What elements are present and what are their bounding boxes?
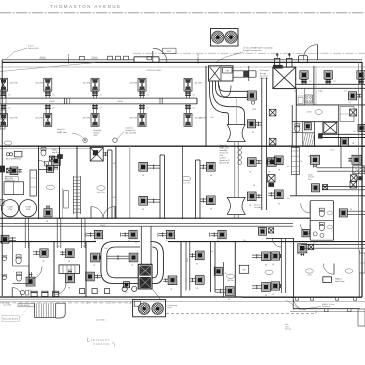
svg-text:250: 250	[294, 91, 297, 93]
corridor north wall	[0, 217, 310, 219]
ahu unit	[138, 264, 152, 289]
hvac1 unit	[47, 156, 61, 172]
corridor diffuser right2	[302, 230, 309, 237]
ceiling diffuser right 1	[300, 71, 312, 85]
svg-text:12x6: 12x6	[210, 117, 214, 119]
svg-text:Heat Pump: Heat Pump	[335, 280, 344, 283]
svg-text:AC Unit W1: AC Unit W1	[220, 162, 230, 165]
main trunk duct	[0, 98, 197, 104]
supply slot diffuser top col1	[0, 78, 8, 98]
entry door arc right	[303, 45, 317, 60]
hvac1 extra units	[45, 155, 63, 167]
toilet right	[295, 124, 300, 132]
lower left duct	[186, 242, 190, 291]
exam vert duct 2	[57, 218, 61, 248]
erv intake hood	[275, 53, 280, 67]
erv supply elbow outer	[216, 81, 248, 97]
sink lower left	[2, 256, 7, 261]
temp note top	[57, 129, 87, 142]
porch door arc	[293, 297, 306, 309]
right diffuser a	[308, 155, 320, 168]
vert duct A	[108, 150, 112, 219]
loop diffuser L2	[86, 272, 101, 281]
street name text	[50, 4, 120, 9]
porch edge	[290, 309, 365, 312]
north wall outer line	[2, 59, 362, 61]
mech diffuser low	[44, 205, 52, 217]
erv return elbow inner	[213, 81, 245, 125]
corridor diffuser 2	[121, 231, 138, 243]
svg-text:400 CFM: 400 CFM	[130, 83, 138, 85]
exam sink south	[12, 288, 29, 297]
air compressor	[6, 151, 22, 160]
svg-text:7x7: 7x7	[135, 243, 138, 245]
gfi label lr	[297, 254, 300, 256]
svg-text:Units: Units	[168, 306, 172, 309]
exam vert duct 3	[81, 218, 85, 248]
right rooms h-duct lower	[322, 187, 365, 190]
supply slot diffuser bottom col3	[91, 104, 99, 126]
south wall left	[0, 297, 242, 299]
svg-text:12x6: 12x6	[112, 163, 116, 165]
hc sinks	[313, 232, 324, 238]
svg-text:Food Area: Food Area	[254, 206, 264, 209]
svg-text:400 CFM: 400 CFM	[195, 83, 203, 85]
svg-text:400 CFM: 400 CFM	[10, 83, 18, 85]
gray partition wall	[129, 146, 131, 218]
svg-text:7x7: 7x7	[93, 240, 96, 242]
svg-text:REF: REF	[243, 269, 246, 271]
toilet room wall	[13, 242, 30, 284]
svg-text:HVAC Unit: HVAC Unit	[57, 131, 67, 134]
connect exhaust note	[113, 127, 137, 143]
sidewalk line 1	[0, 300, 365, 302]
vacuum tanks	[1, 200, 36, 217]
vert duct C	[196, 160, 200, 219]
svg-text:10Ø8: 10Ø8	[252, 109, 256, 111]
entry door swing	[153, 48, 167, 62]
mid diffuser 1	[139, 163, 160, 178]
north sidewalk line	[0, 66, 365, 68]
rooftop condensing units box	[211, 29, 239, 47]
lr closet right	[359, 250, 365, 297]
svg-text:THOMASTON AVENUE: THOMASTON AVENUE	[50, 4, 120, 9]
left edge boxes	[0, 95, 6, 129]
corridor diffuser 1	[86, 231, 103, 243]
svg-text:Unit: Unit	[220, 154, 224, 157]
kitchen wall vertical	[314, 66, 316, 105]
lower mid wall	[181, 238, 294, 297]
right wall	[359, 62, 362, 297]
ceiling diffuser right 3	[357, 71, 365, 85]
stair landing label	[18, 303, 35, 307]
shaft xbox	[324, 122, 337, 133]
svg-text:Exam Office: Exam Office	[182, 182, 190, 184]
supply slot diffuser top col3	[91, 78, 99, 98]
right rooms h-duct upper	[317, 168, 365, 171]
exam vert duct 1	[25, 218, 28, 248]
supply slot diffuser top col4	[138, 78, 146, 98]
exam diffuser 1	[33, 249, 48, 257]
lr diffuser 1	[271, 252, 281, 260]
dark duct bath	[319, 134, 365, 139]
mid oval tags	[97, 176, 191, 194]
kitchen oven symbol	[305, 95, 313, 103]
kitchen counter	[297, 89, 305, 106]
supply slot diffuser bottom col5	[184, 104, 192, 126]
yard dashed line	[166, 309, 316, 314]
svg-text:250: 250	[348, 91, 351, 93]
gfi label	[353, 131, 356, 133]
svg-text:Control: Control	[220, 157, 227, 160]
svg-text:22x10: 22x10	[306, 112, 311, 114]
corridor diffuser right	[259, 227, 274, 235]
right diffuser b	[312, 184, 328, 192]
hvac6 unit rect	[323, 277, 332, 283]
ahu feed duct	[141, 226, 151, 264]
svg-text:12x6: 12x6	[112, 197, 116, 199]
street centerline	[0, 12, 365, 14]
branch diffuser x252 y196	[248, 192, 262, 201]
cfm labels col2	[35, 83, 55, 120]
property dashed line	[133, 52, 365, 54]
erv label text	[260, 70, 269, 80]
corridor diffuser 4	[210, 231, 227, 243]
svg-text:16x16: 16x16	[117, 101, 122, 103]
connection duct erv	[233, 71, 256, 77]
bollard note	[2, 305, 30, 321]
right wing mid wall	[290, 195, 365, 197]
hvac1 label	[52, 149, 61, 154]
svg-text:Parking: Parking	[285, 328, 291, 331]
outside air note	[215, 47, 273, 63]
wall bump extra	[80, 56, 85, 59]
note patch return wall	[5, 45, 39, 61]
erv return elbow outer	[210, 81, 229, 125]
svg-text:Heat Pump: Heat Pump	[52, 151, 61, 154]
hc toilet rooms walls	[310, 201, 333, 241]
parking dashed line	[0, 302, 132, 305]
loop diffuser R1	[107, 253, 138, 262]
cfm label mid	[199, 118, 207, 120]
bollard circles	[122, 286, 137, 291]
fresh air canopy	[299, 55, 308, 62]
office diffuser 2	[252, 283, 270, 297]
svg-text:Energy Recovery Unit: Energy Recovery Unit	[243, 49, 262, 52]
right wing diffuser w	[268, 156, 283, 165]
lr door	[323, 264, 334, 275]
svg-text:Future: Future	[28, 45, 35, 48]
existing wall label	[146, 69, 162, 72]
right edge hatched box	[353, 166, 364, 174]
erv supply elbow inner	[219, 81, 248, 91]
duct right U outer	[151, 241, 164, 283]
condenser label	[168, 305, 178, 309]
duct labels right of trunk	[249, 109, 271, 207]
hc toilet 2	[319, 222, 332, 231]
closet small box	[239, 265, 248, 273]
exam diffuser 2	[60, 249, 74, 258]
svg-text:Conc Walk: Conc Walk	[3, 305, 11, 307]
main interior wall	[0, 146, 365, 148]
hc doors	[301, 203, 311, 233]
window bumps	[108, 56, 152, 60]
duct right U inner	[152, 247, 158, 278]
duct B top cap	[108, 150, 200, 160]
svg-text:Space to 45: Space to 45	[220, 159, 230, 162]
erv exhaust hood	[287, 53, 292, 67]
vertical duct x262	[262, 78, 267, 211]
trunk size label 16x14	[49, 101, 54, 103]
svg-text:EXISTING WALL: EXISTING WALL	[146, 69, 162, 72]
right ceiling duct	[296, 84, 365, 88]
hvac6 label	[335, 278, 344, 284]
supply slot diffuser top col5	[184, 78, 192, 98]
kitchen food label	[254, 204, 264, 210]
lower diffuser 1b	[190, 276, 204, 290]
svg-text:Exam Office: Exam Office	[97, 192, 105, 194]
cfm labels col3	[83, 83, 103, 120]
flex connection lower	[227, 197, 245, 214]
office oval tags	[227, 270, 274, 282]
office diffuser 1	[252, 252, 270, 266]
svg-text:14x6: 14x6	[104, 248, 108, 250]
energy recovery unit	[273, 65, 296, 88]
humidify control note	[220, 145, 242, 165]
svg-text:Removable Bollards: Removable Bollards	[3, 318, 18, 321]
supply slot diffuser bottom col4	[138, 104, 146, 126]
svg-text:250: 250	[320, 91, 323, 93]
supply slot diffuser bottom col1	[0, 104, 8, 126]
supply slot diffuser bottom col2	[44, 104, 52, 126]
svg-text:VEST: VEST	[167, 51, 171, 53]
duct left U outer	[101, 241, 140, 283]
branch diffuser x252 y162	[248, 158, 262, 167]
pantry room	[340, 107, 354, 122]
branch diffuser x272 y162	[266, 158, 276, 167]
svg-text:400 CFM: 400 CFM	[35, 83, 43, 85]
entry alcove jog	[134, 57, 159, 63]
trunk joints	[65, 98, 163, 104]
svg-text:400 CFM: 400 CFM	[199, 118, 207, 120]
mid diffuser 3	[200, 163, 215, 178]
lr diffuser 2	[271, 282, 281, 290]
trunk size label 16x16	[117, 101, 122, 103]
bollard cylinders	[31, 291, 59, 296]
flex duct between	[235, 142, 238, 198]
mech oval tag	[4, 141, 12, 145]
ladder hatch	[74, 176, 81, 214]
branch diffuser x252 y95	[247, 91, 256, 104]
svg-text:16x7: 16x7	[187, 258, 189, 262]
stair closet hatch	[303, 133, 315, 147]
right wing diffuser x	[268, 190, 283, 199]
loop diffuser L1	[91, 253, 101, 262]
svg-text:400 CFM: 400 CFM	[130, 118, 138, 120]
cfm labels col1	[8, 83, 18, 120]
svg-text:10%: 10%	[94, 135, 98, 137]
toilet lower left	[16, 255, 21, 264]
branch diffuser x252 y124	[248, 120, 262, 128]
cfm labels col5	[192, 83, 202, 120]
corridor diffuser 3	[158, 231, 175, 243]
corridor diffuser left end	[1, 235, 16, 243]
cfm labels col4	[130, 83, 150, 120]
duct size label 22x10	[39, 57, 98, 59]
lower diffuser 2	[214, 267, 227, 275]
right edge dampers	[350, 109, 357, 188]
svg-text:400 CFM: 400 CFM	[10, 118, 18, 120]
right wing partition	[340, 146, 342, 168]
porch columns	[296, 297, 357, 312]
lower diffuser 1	[190, 251, 204, 265]
svg-text:Conc Walk 1: Conc Walk 1	[96, 319, 106, 321]
diffuser mech left	[7, 167, 22, 175]
svg-text:Exhaust To: Exhaust To	[126, 129, 137, 132]
hvac6 yard note	[286, 300, 334, 310]
right kitchen diffuser	[349, 92, 362, 104]
bollard posts mid	[80, 289, 110, 294]
toilet room mech	[39, 148, 48, 170]
bath duct diffuser	[340, 138, 354, 146]
sink lower left 2	[2, 274, 7, 279]
damper diffuser x271 y179	[268, 175, 275, 187]
transfer duct note	[308, 174, 315, 181]
mid double door	[91, 207, 115, 219]
erv boot fitting	[220, 86, 232, 97]
hc toilet 1	[319, 208, 332, 217]
left wall	[1, 60, 3, 296]
entry stoop box	[163, 48, 177, 53]
waiting diffuser right	[339, 209, 365, 217]
vert duct B	[160, 155, 164, 219]
svg-text:7x7: 7x7	[344, 91, 347, 93]
med gas box	[4, 170, 36, 196]
lower right duct wall	[281, 238, 285, 293]
corridor supply duct	[0, 223, 316, 244]
closet shelves right wing	[291, 148, 299, 175]
svg-text:Sensor To: Sensor To	[220, 151, 228, 154]
trim cabinetry label	[5, 177, 18, 182]
svg-text:400 CFM: 400 CFM	[83, 118, 91, 120]
svg-text:16x7: 16x7	[210, 251, 214, 253]
walk note 2	[96, 319, 106, 321]
svg-text:Condenser: Condenser	[322, 305, 331, 308]
flex duct lower	[235, 214, 238, 218]
svg-text:ADJACENT: ADJACENT	[91, 338, 110, 342]
lower vert duct	[211, 242, 215, 292]
ceiling diffuser right 2	[324, 71, 336, 85]
south wall right	[242, 296, 362, 298]
lr suite wall	[266, 238, 294, 247]
stair run	[35, 303, 56, 317]
svg-text:7x7: 7x7	[165, 240, 168, 242]
svg-text:16x16: 16x16	[100, 225, 105, 227]
duct label 7x7 right	[318, 91, 347, 93]
damper boxes on duct	[269, 109, 276, 145]
label 16x7 vertical	[187, 258, 189, 262]
right diffuser c	[348, 155, 361, 164]
supply slot diffuser top col2	[44, 78, 52, 98]
mid diffuser 4	[200, 196, 215, 211]
svg-text:Connect: Connect	[126, 127, 134, 130]
svg-text:Ventilator: Ventilator	[260, 77, 269, 80]
small note bottom right	[285, 324, 291, 331]
extra duct labels	[29, 91, 358, 296]
kitchen south wall	[296, 104, 365, 106]
bath right diffuser	[358, 125, 365, 132]
refrigerant leader	[152, 289, 161, 300]
exam diffuser 3	[26, 272, 35, 286]
north wall inner line	[2, 61, 362, 63]
svg-text:AC Unit W1: AC Unit W1	[126, 132, 137, 135]
right damper c	[351, 175, 363, 181]
svg-text:22x10: 22x10	[330, 150, 334, 152]
adjacent parking label	[88, 338, 115, 347]
exam diffuser 4	[66, 269, 75, 283]
lr ovals	[306, 269, 353, 277]
loop small vd box	[124, 282, 130, 295]
loop diffuser R2	[163, 276, 176, 285]
svg-text:7x7: 7x7	[217, 240, 220, 242]
left edge extra symbols	[0, 166, 5, 206]
bath room walls	[292, 105, 338, 146]
svg-text:7x7: 7x7	[306, 133, 309, 135]
lr h duct	[301, 245, 365, 249]
mid diffuser 2	[139, 197, 160, 212]
mech room walls	[39, 66, 249, 219]
lower diffuser 3	[215, 287, 234, 301]
svg-text:400 CFM: 400 CFM	[83, 83, 91, 85]
elevator box	[59, 265, 80, 274]
erv center line	[235, 97, 237, 124]
svg-text:Lobby: Lobby	[307, 275, 311, 277]
flex connection upper	[227, 125, 245, 142]
bottom right room	[358, 309, 365, 326]
exam doors lower	[29, 267, 66, 296]
fan coil unit mid	[90, 148, 108, 162]
walk text	[3, 301, 11, 306]
svg-text:400 CFM: 400 CFM	[35, 118, 43, 120]
duct left U inner	[107, 247, 140, 278]
mech tall cabinet	[46, 185, 68, 208]
bath diffuser	[304, 123, 311, 130]
left wall of right wing	[295, 89, 297, 196]
svg-text:Return Wall: Return Wall	[28, 47, 39, 50]
humidity sensor note	[94, 130, 102, 137]
svg-text:7x7: 7x7	[353, 131, 356, 133]
yard condensing units	[133, 300, 166, 317]
toilet lower left 2	[16, 272, 21, 281]
grid tick A2	[197, 54, 199, 64]
lr ceiling diffuser	[298, 244, 314, 256]
filter box ERV curb	[209, 66, 234, 81]
svg-text:Duct: Duct	[308, 178, 312, 181]
exam room walls lower left	[29, 242, 86, 297]
svg-text:16x14: 16x14	[49, 101, 54, 103]
curb taper line	[0, 63, 95, 72]
svg-text:7x7: 7x7	[349, 102, 352, 104]
svg-text:PARKING: PARKING	[94, 342, 110, 346]
grid tick A	[68, 54, 70, 64]
label 22x10 right	[306, 110, 322, 115]
svg-text:7x7: 7x7	[243, 240, 246, 242]
stair side wall	[56, 303, 65, 318]
corridor south wall	[0, 241, 365, 243]
